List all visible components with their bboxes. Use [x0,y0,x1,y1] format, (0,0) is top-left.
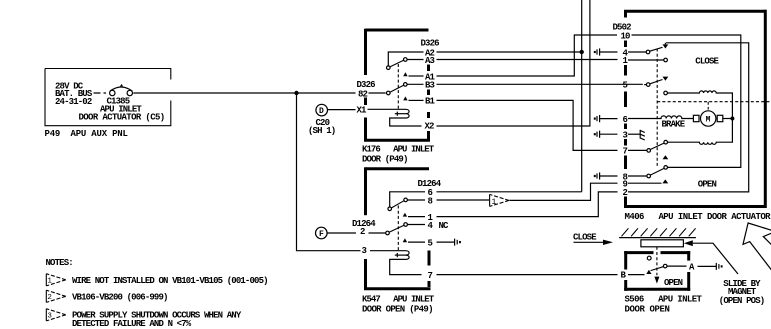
wire A3 to D502 pin 1 [437,59,618,61]
svg-text:BRAKE: BRAKE [662,120,686,130]
note flag 2 [46,290,66,302]
svg-text:2: 2 [47,294,51,302]
open field winding L2 [668,121,733,145]
connector pin symbol at D502-8 (no wire) [594,172,618,179]
node: motor junction dot [730,117,734,121]
svg-text:OPEN: OPEN [698,179,717,189]
note flag 3 [46,309,66,321]
brake coil [628,116,693,119]
CLOSE limit switch (pins 4/1) [628,43,668,62]
svg-text:24-31-02: 24-31-02 [55,97,92,107]
K547 NC throw triangle at 1 [403,213,407,217]
svg-text:DOOR OPEN (P49): DOOR OPEN (P49) [362,305,433,315]
OPEN limit switch (pin 8) [628,166,668,178]
wire K547-1 up to D502 pin 2 [437,192,618,217]
svg-text:X2: X2 [425,122,435,132]
relay coil K547 (3-7) with polarity + [390,251,422,275]
K547 mechanical linkage dashed [397,206,399,251]
ground: airframe ground at pin 3 [628,130,645,140]
svg-text:WIRE NOT INSTALLED ON VB101-VB: WIRE NOT INSTALLED ON VB101-VB105 (001-0… [72,276,268,286]
svg-text:F: F [319,230,324,239]
K176 contact pole A: feed from A2, pivot, arm to A3 contact [387,52,424,69]
wire K547-8 jog up to D502 pin 9 [437,199,490,201]
arrow pointing left at magnet [684,240,738,274]
OPEN limit switch (pin 7) [628,140,668,152]
svg-text:NOTES:: NOTES: [46,258,73,268]
relay coil K176 (X1-X2) with polarity + [390,109,422,126]
wire B3 to D502 pin 5 [437,83,643,85]
wire A1 up to D502 pin 10 [437,35,618,76]
K547 NC throw triangle at 5 [403,238,407,242]
svg-text:S506 APU INLET: S506 APU INLET [625,294,703,304]
note flag 1 [46,274,66,286]
svg-text:(SH 1): (SH 1) [308,126,335,136]
wire: pin 2 up right channel to CLOSE throw [628,43,749,192]
wire: branch down to K547 pin 3 [297,93,406,251]
wire: vertical from off-page top down to K547 pin 6 [581,0,583,192]
connector pin symbol at D502-4 [594,48,618,55]
mechanical linkage dashed (limit switches) [656,49,658,167]
svg-text:8: 8 [428,196,433,206]
door frame hatching [619,228,696,237]
mechanical linkage dashed to door (horizontal) [657,101,771,103]
wire A2 to D502 pin 4 [437,51,584,53]
svg-text:2: 2 [623,188,628,198]
node: junction on 28V bus [294,91,298,95]
CLOSE direction arrow [573,232,613,245]
connector pin symbol at D502-3 (no wire) [594,131,618,138]
S506 switch: throw triangle, arm, pivot [646,270,651,274]
svg-text:CLOSE: CLOSE [573,232,597,242]
off-page connector D to C20 (SH 1) [308,104,335,136]
lower CLOSE limit switch (pin 5) [644,77,668,95]
svg-text:B3: B3 [425,80,435,90]
wire: D to K176 X1 [327,108,405,110]
svg-text:A3: A3 [425,56,435,66]
wire: F to K547 pin 2 [327,232,386,234]
svg-text:5: 5 [623,81,628,91]
svg-text:5: 5 [428,238,433,248]
svg-text:K176 APU INLET: K176 APU INLET [362,144,435,154]
motor M [693,111,730,126]
svg-text:DOOR OPEN: DOOR OPEN [625,304,670,314]
magnet [641,240,684,247]
svg-text:3: 3 [623,130,628,140]
K547 contact pole 2: pivot fed from 2, arm to 4 contact [386,223,425,235]
svg-text:M406 APU INLET DOOR ACTUATOR: M406 APU INLET DOOR ACTUATOR [625,212,771,222]
wire X2 to off-page top [437,0,590,126]
switch S506 APU INLET DOOR OPEN box [624,251,702,314]
connector pin symbol at D502-6 (no wire) [594,115,618,122]
wire K547-7 to S506 B [437,274,618,276]
svg-text:DOOR (P49): DOOR (P49) [362,154,408,164]
wire: 28V bus from breaker to K176 pin 82 [133,92,385,94]
note flag 1 on wire [490,194,509,206]
circuit breaker C1385 APU INLET DOOR ACTUATOR (C5) [79,84,165,123]
svg-text:DOOR ACTUATOR (C5): DOOR ACTUATOR (C5) [79,113,165,123]
svg-text:CLOSE: CLOSE [695,56,719,66]
panel P49 APU AUX PNL box [45,69,171,139]
svg-text:(OPEN POS): (OPEN POS) [719,296,765,306]
slide-by-magnet note text [719,279,765,306]
wire pin 5 capped spare [437,239,461,246]
svg-text:B1: B1 [425,97,436,107]
svg-text:K547 APU INLET: K547 APU INLET [362,295,435,305]
svg-text:D326: D326 [421,39,440,49]
K176 contact pole B: pivot fed from 82, arm to B3 contact [387,83,424,95]
svg-text:10: 10 [621,32,631,42]
S506 dead contact [647,256,651,260]
svg-text:6: 6 [623,115,628,125]
relay K176 APU INLET DOOR (P49) box [362,29,435,165]
actuator M406 APU INLET DOOR ACTUATOR box [624,10,771,222]
svg-text:OPEN: OPEN [664,278,683,288]
svg-text:3: 3 [362,246,367,256]
svg-text:VB106-VB200 (006-999): VB106-VB200 (006-999) [72,293,168,303]
svg-text:2: 2 [360,227,365,237]
svg-text:7: 7 [428,271,433,281]
svg-text:82: 82 [358,89,368,99]
relay K547 APU INLET DOOR OPEN (P49) box [362,167,435,314]
svg-text:P49 APU AUX PNL: P49 APU AUX PNL [45,129,128,139]
wire K547-6 feed from vertical [437,191,582,193]
S506 terminal A wire capped [667,265,687,267]
K547 contact pole 1: feed from 6, pivot, arm to 8 contact [388,192,425,211]
svg-text:NC: NC [439,221,450,231]
dashed stub to motor [707,102,709,110]
throw triangle at pin 9 [628,182,662,184]
throw triangle (upper, floating) [663,155,669,159]
big hollow arrow (door) [743,223,771,272]
svg-text:7: 7 [623,147,628,157]
node: junction dot at vertical feed and pin-4 wire [580,50,584,54]
K176 NC throw triangle at B1 [403,96,407,100]
wire: pin 10 to OPEN limit switch contact (right channel) [632,35,741,167]
svg-text:X1: X1 [357,106,368,116]
close field winding L1 [667,91,732,117]
wire B1 down to D502 pin 7 [437,100,618,150]
K176 mechanical linkage dashed [397,64,399,109]
actuation dashed arrow into S506 [654,247,682,288]
K176 NC throw triangle at A1 [403,72,407,76]
svg-text:D: D [319,107,324,116]
off-page connector F to K547 pin 2 [316,227,328,239]
svg-text:DETECTED FAILURE AND N <7%: DETECTED FAILURE AND N <7% [72,319,192,329]
